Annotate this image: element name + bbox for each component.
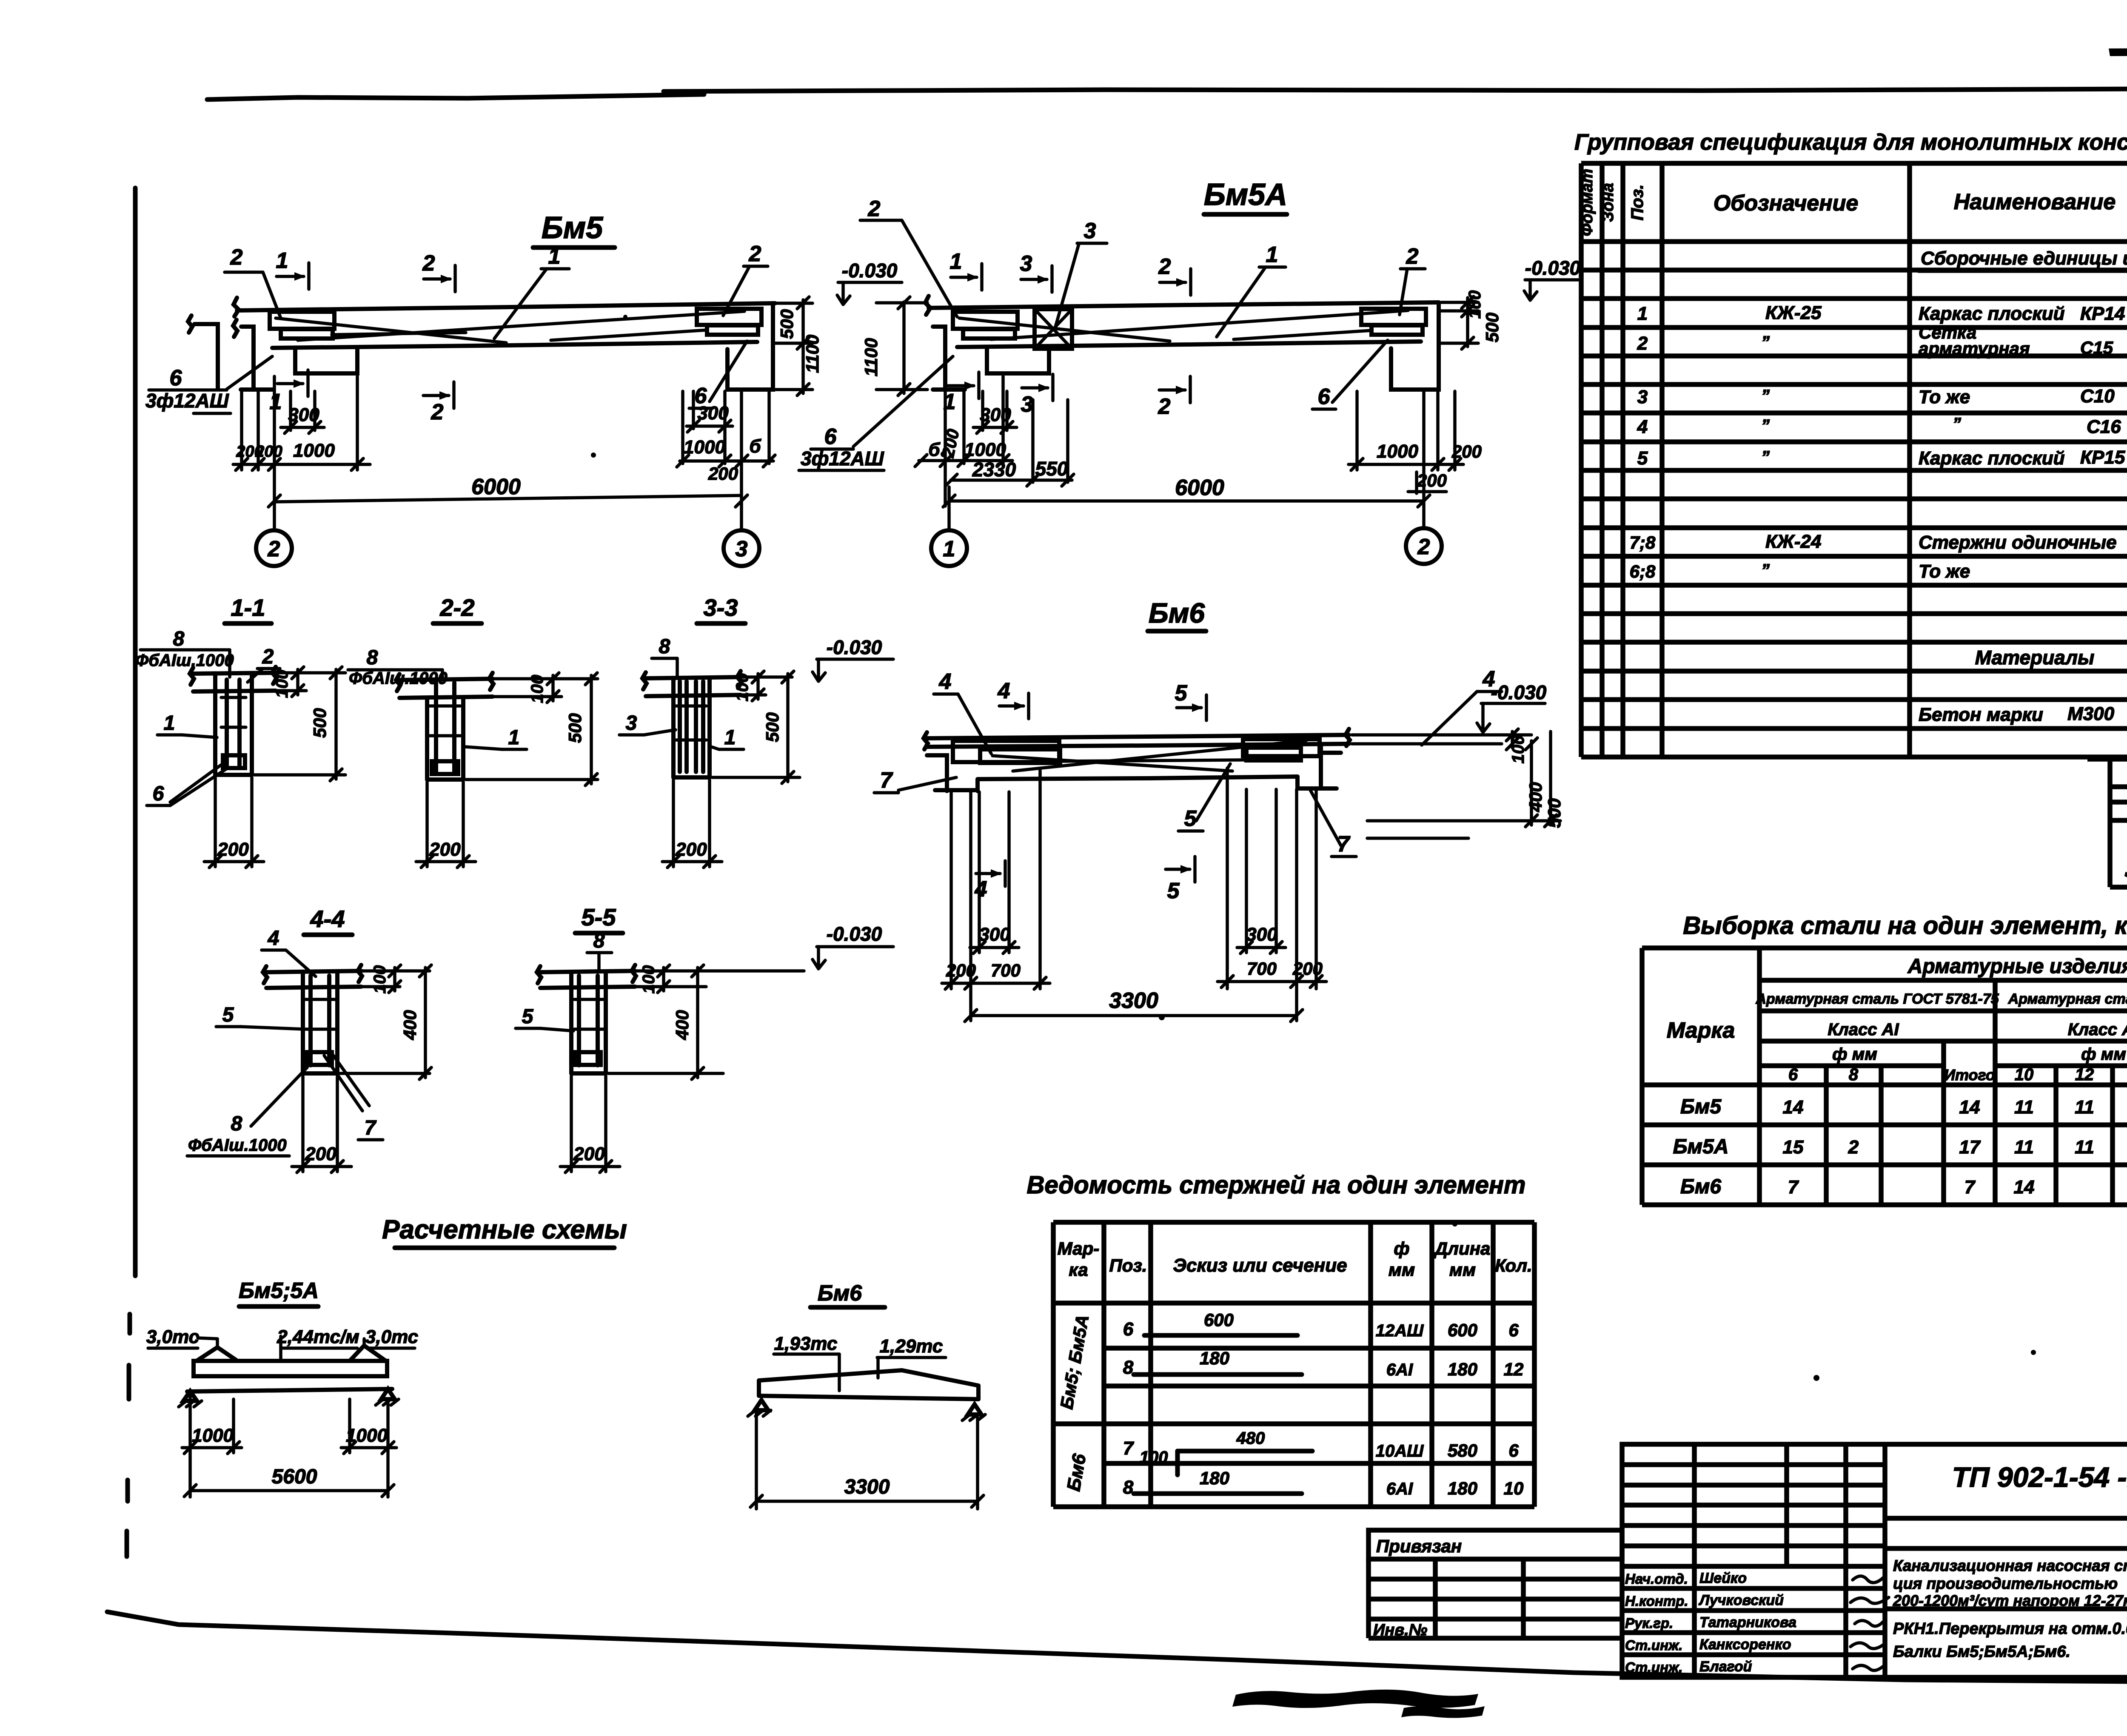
svg-text:Итого: Итого bbox=[1944, 1066, 1995, 1084]
TABLE: Ведомость стержней на один элемент bbox=[1027, 1171, 1534, 1507]
right end bbox=[1391, 302, 1439, 390]
svg-text:Бм6: Бм6 bbox=[1680, 1175, 1721, 1198]
svg-text:Расчетные схемы: Расчетные схемы bbox=[382, 1215, 627, 1244]
svg-text:Арматурная сталь ГОСТ 5781-75: Арматурная сталь ГОСТ 5781-75 bbox=[1755, 991, 1999, 1007]
verticals bbox=[1579, 163, 1584, 757]
right dim columns bbox=[1352, 733, 1531, 737]
svg-text:1: 1 bbox=[1637, 303, 1648, 324]
svg-text:Материалы: Материалы bbox=[1975, 646, 2095, 669]
svg-text:3: 3 bbox=[1637, 387, 1648, 407]
svg-text:Благой: Благой bbox=[1699, 1659, 1752, 1675]
svg-text:500: 500 bbox=[777, 309, 797, 339]
svg-text:700: 700 bbox=[1247, 959, 1277, 979]
svg-text:500: 500 bbox=[1544, 798, 1564, 828]
6000 dim bbox=[273, 470, 276, 530]
BEAM Бм5 elevation bbox=[145, 211, 902, 566]
left wall bbox=[241, 327, 254, 388]
svg-text:То же: То же bbox=[1919, 561, 1970, 582]
svg-text:11: 11 bbox=[2014, 1097, 2034, 1118]
svg-text:Класс АI: Класс АI bbox=[1828, 1020, 1899, 1039]
SECTION 4-4 bbox=[187, 905, 431, 1173]
svg-text:200: 200 bbox=[429, 839, 461, 860]
chain dims right bbox=[681, 391, 684, 464]
svg-text:4: 4 bbox=[268, 927, 279, 950]
svg-text:6: 6 bbox=[1318, 384, 1331, 409]
TITLE BLOCK (штамп) bbox=[1622, 1444, 2127, 1677]
bottom torn edge bbox=[107, 1612, 1574, 1673]
supports bbox=[755, 1400, 768, 1410]
grid circle 3 bbox=[724, 530, 759, 566]
svg-text:300: 300 bbox=[697, 403, 729, 424]
svg-text:550: 550 bbox=[1035, 458, 1068, 480]
svg-text:Привязан: Привязан bbox=[1376, 1536, 1462, 1556]
svg-text:1: 1 bbox=[950, 249, 962, 274]
svg-text:арматурная: арматурная bbox=[1919, 339, 2030, 359]
svg-text:1,93тс: 1,93тс bbox=[774, 1333, 838, 1354]
X-box сетка С10 bbox=[1035, 309, 1072, 349]
svg-text:2: 2 bbox=[431, 400, 444, 424]
outer and grid horizontals bbox=[1581, 161, 2127, 166]
verticals bbox=[1639, 948, 1645, 1205]
svg-text:-0.030: -0.030 bbox=[1491, 681, 1547, 703]
svg-text:2: 2 bbox=[268, 537, 280, 561]
mini dim 300 left bbox=[289, 391, 292, 430]
svg-text:7: 7 bbox=[1123, 1438, 1135, 1459]
svg-text:5: 5 bbox=[1184, 806, 1197, 831]
SECTION 5-5 bbox=[516, 904, 893, 1173]
svg-text:1000: 1000 bbox=[192, 1425, 234, 1446]
svg-text:180: 180 bbox=[1200, 1468, 1229, 1488]
svg-text:-0.030: -0.030 bbox=[827, 923, 882, 945]
svg-text:200: 200 bbox=[708, 464, 738, 484]
scattered dots bbox=[591, 315, 2036, 1381]
rebar cage left bbox=[953, 312, 1018, 329]
svg-text:200: 200 bbox=[1417, 470, 1447, 490]
svg-text:5: 5 bbox=[1637, 448, 1648, 469]
svg-text:3,0тс: 3,0тс bbox=[146, 1326, 199, 1347]
signature rows bbox=[1622, 1586, 1885, 1591]
svg-text:3: 3 bbox=[1084, 219, 1096, 243]
chain 2330 550 bbox=[1031, 400, 1035, 482]
svg-text:1000: 1000 bbox=[293, 440, 335, 461]
svg-text:Лучковский: Лучковский bbox=[1698, 1592, 1784, 1608]
svg-text:6: 6 bbox=[1123, 1319, 1134, 1340]
svg-text:2-2: 2-2 bbox=[440, 594, 475, 621]
svg-text:Сборочные единицы и детали: Сборочные единицы и детали bbox=[1921, 248, 2127, 269]
svg-text:КР15: КР15 bbox=[2080, 447, 2125, 468]
svg-text:1-1: 1-1 bbox=[231, 594, 265, 621]
svg-text:мм: мм bbox=[1449, 1260, 1476, 1280]
bottom dim chains right bbox=[1226, 768, 1229, 989]
svg-text:КЖ-25: КЖ-25 bbox=[1765, 302, 1822, 323]
svg-text:6000: 6000 bbox=[471, 475, 521, 499]
svg-text:1: 1 bbox=[548, 244, 561, 269]
svg-text:-0.030: -0.030 bbox=[1525, 257, 1581, 279]
svg-text:7: 7 bbox=[880, 768, 893, 793]
svg-text:500: 500 bbox=[310, 708, 330, 738]
bent bar diagonals bbox=[991, 310, 1408, 339]
right end bbox=[727, 303, 773, 390]
svg-text:-0.030: -0.030 bbox=[827, 636, 882, 658]
svg-text:8: 8 bbox=[1849, 1065, 1859, 1084]
3300 dim bbox=[971, 1014, 1297, 1017]
chain dims right bbox=[1355, 391, 1359, 470]
svg-text:5: 5 bbox=[1167, 879, 1180, 903]
svg-text:5: 5 bbox=[1175, 681, 1188, 706]
svg-text:6: 6 bbox=[824, 424, 837, 449]
svg-text:2: 2 bbox=[1406, 244, 1419, 269]
svg-text:6: 6 bbox=[170, 366, 182, 390]
svg-text:2: 2 bbox=[749, 242, 761, 266]
svg-text:Ст.инж.: Ст.инж. bbox=[1625, 1659, 1682, 1675]
svg-text:100: 100 bbox=[1140, 1448, 1168, 1467]
svg-text:ка: ка bbox=[1069, 1260, 1088, 1280]
svg-text:Каркас плоский: Каркас плоский bbox=[1919, 303, 2065, 324]
svg-text:4: 4 bbox=[939, 669, 952, 694]
chain dims left: б,200,1000 then 2330,550 bbox=[944, 391, 947, 506]
bent bars bbox=[1013, 740, 1306, 771]
svg-text:1000: 1000 bbox=[964, 439, 1006, 460]
svg-text:11: 11 bbox=[2075, 1137, 2094, 1158]
left small grid horizontals bbox=[1622, 1462, 1885, 1467]
svg-text:200: 200 bbox=[1292, 959, 1323, 979]
svg-text:Класс АII: Класс АII bbox=[2068, 1020, 2127, 1039]
svg-text:С10: С10 bbox=[2080, 386, 2115, 407]
svg-text:Поз.: Поз. bbox=[1109, 1255, 1147, 1275]
slab bottom line bbox=[927, 744, 1349, 747]
svg-text:5-5: 5-5 bbox=[582, 904, 616, 931]
svg-text:Арматурные изделия: Арматурные изделия bbox=[1907, 955, 2127, 978]
svg-text:2: 2 bbox=[1417, 535, 1430, 559]
svg-text:Нач.отд.: Нач.отд. bbox=[1625, 1571, 1688, 1587]
svg-text:200: 200 bbox=[255, 443, 282, 461]
svg-text:1: 1 bbox=[1266, 242, 1278, 267]
svg-text:Ст.инж.: Ст.инж. bbox=[1625, 1637, 1682, 1653]
svg-text:8: 8 bbox=[231, 1113, 242, 1135]
svg-text:Татарникова: Татарникова bbox=[1699, 1614, 1796, 1631]
svg-text:Каркас плоский: Каркас плоский bbox=[1919, 448, 2065, 469]
svg-text:ф мм: ф мм bbox=[1832, 1045, 1877, 1064]
svg-text:500: 500 bbox=[1482, 313, 1502, 342]
svg-text:600: 600 bbox=[1448, 1320, 1477, 1340]
svg-text:3300: 3300 bbox=[844, 1476, 890, 1498]
beam bottom bbox=[978, 777, 1297, 779]
svg-text:10: 10 bbox=[1504, 1478, 1524, 1498]
svg-text:400: 400 bbox=[1525, 782, 1545, 812]
wall outer face left bbox=[194, 324, 218, 388]
svg-text:300: 300 bbox=[1246, 924, 1277, 945]
svg-text:б: б bbox=[749, 436, 761, 457]
svg-text:С16: С16 bbox=[2087, 416, 2121, 437]
svg-text:100: 100 bbox=[733, 673, 752, 702]
beam top line bbox=[929, 302, 1439, 308]
rebar cage left (КР14) bbox=[270, 312, 334, 329]
bottom smudge bbox=[1232, 1690, 1485, 1718]
svg-text:180: 180 bbox=[1448, 1478, 1477, 1498]
svg-text:РКН1.Перекрытия на отм.0.000: РКН1.Перекрытия на отм.0.000 bbox=[1893, 1620, 2127, 1638]
svg-text:3: 3 bbox=[1021, 392, 1033, 417]
dims bbox=[755, 1412, 758, 1509]
svg-text:3300: 3300 bbox=[1109, 988, 1158, 1013]
svg-text:15: 15 bbox=[1783, 1137, 1804, 1158]
svg-text:7: 7 bbox=[365, 1117, 377, 1139]
svg-text:4: 4 bbox=[998, 679, 1010, 703]
svg-text:Поз.: Поз. bbox=[1628, 185, 1647, 221]
svg-text:б: б bbox=[928, 439, 941, 460]
svg-text:”: ” bbox=[1761, 333, 1770, 352]
left drop block bbox=[987, 347, 1049, 373]
svg-text:Бм5: Бм5 bbox=[542, 211, 603, 245]
svg-text:ФбАIш.1000: ФбАIш.1000 bbox=[188, 1136, 287, 1155]
svg-text:6000: 6000 bbox=[1175, 475, 1224, 500]
svg-text:600: 600 bbox=[1204, 1310, 1234, 1330]
SECTION 3-3 bbox=[619, 594, 893, 868]
svg-text:100: 100 bbox=[639, 965, 658, 994]
svg-text:Эскиз или сечение: Эскиз или сечение bbox=[1173, 1255, 1347, 1276]
svg-text:3: 3 bbox=[626, 712, 637, 734]
svg-text:7;8: 7;8 bbox=[1630, 532, 1656, 552]
slab bottom line bbox=[272, 342, 757, 348]
svg-text:С15: С15 bbox=[2080, 338, 2113, 358]
svg-text:Кол.: Кол. bbox=[1495, 1255, 1532, 1275]
svg-text:7: 7 bbox=[1964, 1177, 1976, 1198]
svg-text:Бм6: Бм6 bbox=[1149, 597, 1206, 629]
6000 dim bbox=[947, 487, 951, 530]
svg-text:1000: 1000 bbox=[1377, 441, 1418, 462]
svg-text:мм: мм bbox=[1389, 1260, 1415, 1280]
rebar cage right bbox=[697, 309, 761, 325]
svg-text:180: 180 bbox=[1200, 1348, 1229, 1368]
svg-text:Ведомость стержней на один эле: Ведомость стержней на один элемент bbox=[1027, 1171, 1526, 1199]
svg-text:Шейко: Шейко bbox=[1699, 1570, 1747, 1586]
bent bar diagonals bbox=[298, 311, 744, 340]
SECTION 2-2 bbox=[348, 594, 598, 868]
verticals bbox=[1051, 1222, 1056, 1507]
svg-text:8: 8 bbox=[367, 646, 378, 669]
svg-text:7: 7 bbox=[1788, 1177, 1799, 1198]
svg-text:6АI: 6АI bbox=[1386, 1480, 1413, 1498]
svg-text:Групповая спецификация для мон: Групповая спецификация для монолитных ко… bbox=[1574, 130, 2127, 155]
svg-text:”: ” bbox=[1761, 416, 1770, 435]
svg-text:12: 12 bbox=[2075, 1065, 2094, 1084]
svg-text:6АI: 6АI bbox=[1386, 1360, 1413, 1379]
svg-text:Бетон марки: Бетон марки bbox=[1919, 704, 2043, 725]
signatures squiggles bbox=[1853, 1576, 1885, 1582]
svg-text:400: 400 bbox=[672, 1010, 692, 1040]
bottom dim chains left bbox=[949, 792, 953, 989]
svg-text:М300: М300 bbox=[2067, 703, 2115, 724]
svg-text:То же: То же bbox=[1919, 387, 1970, 407]
svg-text:1000: 1000 bbox=[346, 1425, 388, 1446]
svg-text:1: 1 bbox=[276, 248, 288, 273]
svg-text:Длина: Длина bbox=[1434, 1238, 1491, 1258]
svg-text:ф мм: ф мм bbox=[2081, 1045, 2126, 1064]
svg-text:3: 3 bbox=[736, 537, 748, 561]
svg-text:2: 2 bbox=[262, 646, 274, 668]
svg-text:Бм5А: Бм5А bbox=[1204, 178, 1287, 212]
svg-text:2: 2 bbox=[422, 251, 435, 276]
top torn edge line right part bbox=[664, 88, 2127, 91]
svg-text:Бм5: Бм5 bbox=[1680, 1096, 1722, 1118]
svg-text:8: 8 bbox=[173, 628, 185, 650]
svg-text:Рук.гр.: Рук.гр. bbox=[1625, 1615, 1673, 1631]
svg-text:Наименование: Наименование bbox=[1954, 190, 2116, 214]
top torn edge line left part bbox=[207, 94, 704, 100]
svg-text:100: 100 bbox=[273, 670, 291, 698]
svg-text:5: 5 bbox=[522, 1005, 534, 1028]
svg-text:100: 100 bbox=[371, 965, 389, 994]
svg-text:200: 200 bbox=[675, 839, 707, 860]
svg-text:Бм5А: Бм5А bbox=[1673, 1136, 1729, 1158]
svg-text:14: 14 bbox=[1783, 1097, 1804, 1118]
svg-text:Марка: Марка bbox=[1667, 1018, 1735, 1043]
svg-text:2: 2 bbox=[1637, 333, 1648, 354]
svg-text:”: ” bbox=[1953, 415, 1961, 433]
svg-text:17: 17 bbox=[1959, 1137, 1981, 1158]
svg-text:6: 6 bbox=[1788, 1065, 1798, 1084]
mini dim 300 left bbox=[981, 391, 984, 430]
svg-text:Арматурная сталь ГОСТ 5.1459-7: Арматурная сталь ГОСТ 5.1459-72* bbox=[2008, 991, 2127, 1007]
left dim column 1100 bbox=[902, 302, 906, 393]
svg-text:Канализационная насосная стан-: Канализационная насосная стан- bbox=[1893, 1557, 2127, 1574]
svg-text:5: 5 bbox=[222, 1004, 234, 1026]
svg-text:400: 400 bbox=[400, 1010, 420, 1040]
slab top line bbox=[927, 735, 1349, 738]
svg-text:КЖ-24: КЖ-24 bbox=[1765, 531, 1821, 552]
TABLE: Выборка стали на один элемент, кг bbox=[1642, 912, 2127, 1205]
horizontals bbox=[1053, 1220, 1534, 1225]
svg-text:12: 12 bbox=[1504, 1359, 1524, 1379]
svg-text:180: 180 bbox=[1448, 1359, 1477, 1379]
horizontals bbox=[1642, 945, 2127, 951]
left frame vertical bbox=[133, 188, 138, 1276]
svg-text:2: 2 bbox=[868, 196, 881, 221]
SECTION 1-1 bbox=[135, 594, 345, 868]
svg-text:Выборка стали на один элемент,: Выборка стали на один элемент, кг bbox=[1683, 912, 2127, 939]
svg-text:3-3: 3-3 bbox=[704, 594, 738, 621]
svg-text:3,0тс: 3,0тс bbox=[365, 1326, 418, 1347]
svg-text:200: 200 bbox=[217, 839, 249, 860]
rebar cages bbox=[953, 741, 1059, 762]
svg-text:ТП 902-1-54 -КЖ: ТП 902-1-54 -КЖ bbox=[1952, 1461, 2127, 1493]
svg-text:3: 3 bbox=[1020, 251, 1032, 276]
left drop block bbox=[295, 348, 357, 373]
svg-text:Мар-: Мар- bbox=[1058, 1238, 1100, 1258]
rebar cage right bbox=[1361, 309, 1426, 325]
svg-text:480: 480 bbox=[1236, 1429, 1265, 1448]
Привязан box and left extension grid bbox=[1369, 1530, 1622, 1639]
chain dims left bbox=[240, 391, 243, 470]
TABLE: Групповая спецификация bbox=[1574, 130, 2127, 757]
svg-text:Бм5;5А: Бм5;5А bbox=[239, 1278, 319, 1303]
svg-text:2: 2 bbox=[1158, 394, 1171, 419]
svg-text:Канксоренко: Канксоренко bbox=[1699, 1636, 1791, 1653]
svg-text:6: 6 bbox=[1508, 1440, 1519, 1460]
svg-text:580: 580 bbox=[1448, 1440, 1477, 1460]
svg-text:14: 14 bbox=[1959, 1097, 1980, 1118]
svg-text:1: 1 bbox=[724, 726, 736, 749]
left support bbox=[927, 755, 947, 791]
svg-text:6: 6 bbox=[153, 783, 164, 805]
svg-text:12АШ: 12АШ bbox=[1376, 1321, 1424, 1340]
svg-text:2330: 2330 bbox=[972, 458, 1016, 481]
slab bottom line bbox=[957, 342, 1421, 347]
svg-text:4-4: 4-4 bbox=[310, 905, 345, 932]
svg-text:Стержни одиночные: Стержни одиночные bbox=[1919, 532, 2117, 553]
tapered beam bbox=[759, 1370, 978, 1386]
svg-text:ФбАIш.1000: ФбАIш.1000 bbox=[135, 651, 234, 670]
svg-text:ция производительностью: ция производительностью bbox=[1893, 1575, 2118, 1592]
svg-text:2: 2 bbox=[230, 245, 243, 270]
beam rect bbox=[194, 1361, 387, 1376]
svg-text:300: 300 bbox=[979, 924, 1010, 945]
right support bbox=[1321, 744, 1341, 788]
svg-text:3ф12АШ: 3ф12АШ bbox=[801, 447, 884, 470]
svg-text:300: 300 bbox=[288, 404, 319, 425]
svg-text:-0.030: -0.030 bbox=[842, 259, 898, 282]
outer bbox=[1622, 1444, 2127, 1677]
svg-text:”: ” bbox=[1761, 387, 1770, 405]
svg-text:200: 200 bbox=[946, 960, 976, 980]
support line + supports bbox=[187, 1389, 392, 1392]
svg-text:Формат: Формат bbox=[1578, 169, 1596, 236]
svg-text:200: 200 bbox=[573, 1144, 605, 1164]
svg-text:Н.контр.: Н.контр. bbox=[1625, 1593, 1688, 1609]
svg-text:1,29тс: 1,29тс bbox=[880, 1336, 943, 1357]
svg-text:1: 1 bbox=[164, 712, 175, 734]
svg-text:Обозначение: Обозначение bbox=[1714, 191, 1859, 216]
svg-text:КР14: КР14 bbox=[2080, 303, 2125, 324]
TABLE: small marka table (Стадия/Марка/Бм5/Бм5А/Бм6) bbox=[2087, 757, 2127, 887]
top right heavy dash bbox=[2109, 48, 2127, 56]
svg-text:10: 10 bbox=[2015, 1065, 2034, 1084]
svg-text:100: 100 bbox=[1466, 290, 1484, 319]
svg-text:1: 1 bbox=[508, 726, 520, 749]
svg-text:Инв.№: Инв.№ bbox=[1373, 1621, 1427, 1639]
svg-text:14: 14 bbox=[2014, 1177, 2035, 1198]
svg-text:6;8: 6;8 bbox=[1630, 561, 1656, 581]
svg-text:3ф12АШ: 3ф12АШ bbox=[145, 390, 229, 412]
svg-text:Балки Бм5;Бм5А;Бм6.: Балки Бм5;Бм5А;Бм6. bbox=[1893, 1643, 2070, 1661]
svg-text:10АШ: 10АШ bbox=[1376, 1442, 1424, 1460]
grid circle 2 bbox=[256, 530, 292, 566]
left wall bbox=[933, 327, 945, 388]
РАСЧЕТНЫЕ СХЕМЫ bbox=[146, 1215, 985, 1509]
svg-text:500: 500 bbox=[565, 713, 585, 743]
svg-text:1100: 1100 bbox=[802, 335, 822, 373]
svg-text:2: 2 bbox=[1158, 254, 1171, 279]
right dim column bbox=[801, 300, 805, 393]
load triangles bbox=[198, 1338, 217, 1339]
svg-text:Бм6: Бм6 bbox=[818, 1281, 862, 1306]
svg-text:1: 1 bbox=[943, 537, 955, 561]
svg-text:500: 500 bbox=[762, 712, 782, 742]
svg-text:4: 4 bbox=[1637, 416, 1648, 437]
svg-text:”: ” bbox=[1761, 561, 1770, 580]
svg-text:6: 6 bbox=[1508, 1320, 1519, 1340]
svg-text:300: 300 bbox=[980, 404, 1011, 425]
svg-text:200: 200 bbox=[1451, 441, 1482, 461]
svg-text:1100: 1100 bbox=[861, 338, 881, 376]
svg-text:11: 11 bbox=[2014, 1137, 2034, 1158]
beam top line bbox=[237, 303, 775, 310]
svg-text:11: 11 bbox=[2075, 1097, 2094, 1118]
svg-text:200: 200 bbox=[305, 1144, 336, 1164]
svg-text:5600: 5600 bbox=[272, 1466, 317, 1488]
svg-text:”: ” bbox=[1761, 448, 1770, 467]
svg-text:100: 100 bbox=[528, 675, 547, 703]
grid circles bbox=[931, 530, 967, 566]
